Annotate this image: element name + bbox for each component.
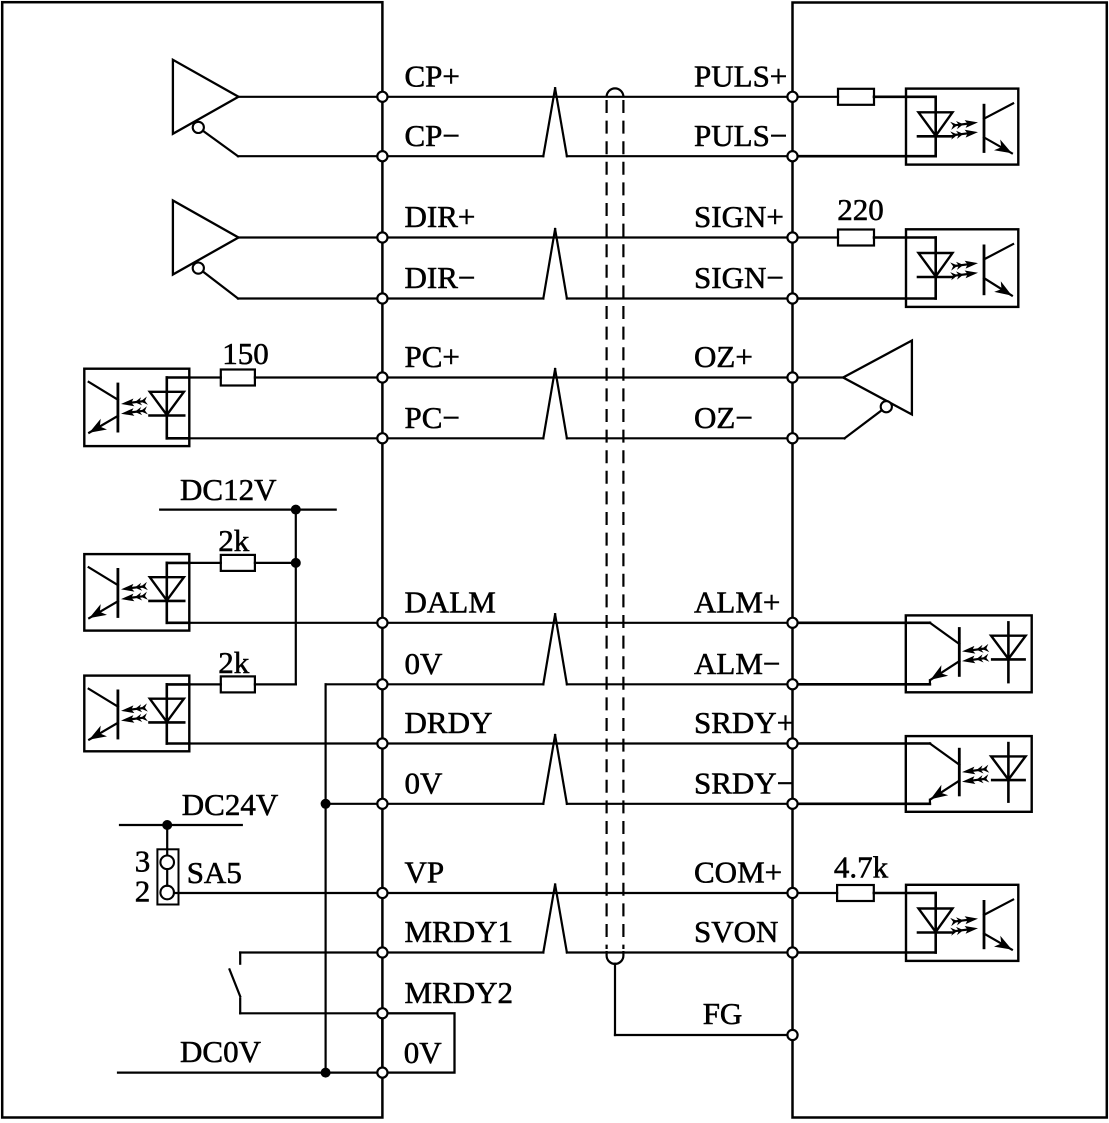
svg-text:FG: FG xyxy=(703,996,743,1031)
svg-text:ALM−: ALM− xyxy=(694,646,780,681)
svg-text:VP: VP xyxy=(405,855,445,890)
svg-text:COM+: COM+ xyxy=(694,855,782,890)
svg-text:SRDY+: SRDY+ xyxy=(694,705,794,740)
svg-text:0V: 0V xyxy=(404,1035,443,1070)
svg-text:SIGN+: SIGN+ xyxy=(694,199,784,234)
svg-text:DRDY: DRDY xyxy=(405,705,493,740)
svg-text:CP+: CP+ xyxy=(405,59,460,94)
svg-text:0V: 0V xyxy=(405,766,444,801)
svg-text:OZ+: OZ+ xyxy=(694,339,753,374)
svg-text:SVON: SVON xyxy=(694,914,778,949)
svg-text:PULS+: PULS+ xyxy=(694,59,787,94)
svg-text:2k: 2k xyxy=(218,523,250,558)
svg-text:2: 2 xyxy=(135,874,151,909)
svg-text:DC12V: DC12V xyxy=(180,472,277,507)
svg-text:MRDY2: MRDY2 xyxy=(405,975,514,1010)
svg-text:MRDY1: MRDY1 xyxy=(405,914,514,949)
svg-text:SA5: SA5 xyxy=(187,855,242,890)
svg-text:PC+: PC+ xyxy=(405,339,460,374)
svg-text:4.7k: 4.7k xyxy=(834,850,889,885)
svg-text:DC24V: DC24V xyxy=(182,787,279,822)
svg-text:DIR+: DIR+ xyxy=(405,199,476,234)
svg-text:2k: 2k xyxy=(218,645,250,680)
svg-text:220: 220 xyxy=(837,192,884,227)
svg-text:DALM: DALM xyxy=(405,585,496,620)
svg-text:ALM+: ALM+ xyxy=(694,585,780,620)
svg-text:DC0V: DC0V xyxy=(180,1034,262,1069)
svg-text:SIGN−: SIGN− xyxy=(694,260,784,295)
svg-text:PULS−: PULS− xyxy=(694,118,787,153)
svg-text:SRDY−: SRDY− xyxy=(694,766,794,801)
svg-text:OZ−: OZ− xyxy=(694,400,753,435)
svg-text:0V: 0V xyxy=(405,646,444,681)
svg-text:150: 150 xyxy=(222,336,268,371)
svg-text:CP−: CP− xyxy=(405,118,460,153)
svg-text:PC−: PC− xyxy=(405,400,460,435)
svg-text:DIR−: DIR− xyxy=(405,260,476,295)
